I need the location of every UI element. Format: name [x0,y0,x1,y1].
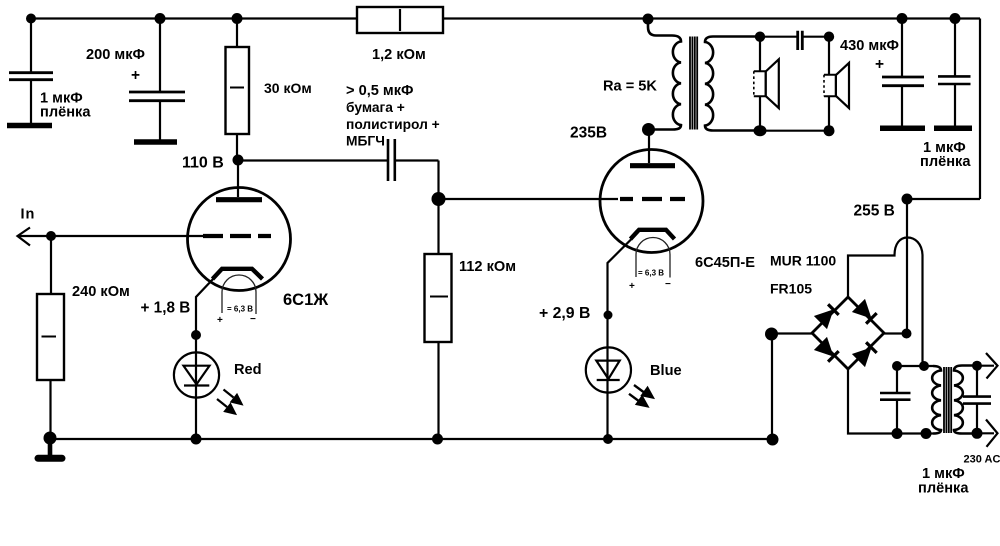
diode D5 (left to bottom) [816,339,839,362]
svg-text:полистирол +: полистирол + [346,117,440,132]
capacitor coupling 0,5 мкФ plates [388,139,395,181]
transformer T2 core [944,367,951,433]
tube V2 heater arc [636,238,670,278]
resistor 1,2 кОм [357,7,443,33]
node top rail at T1 [643,14,654,25]
wire bridge minus to ground rail [772,334,812,440]
svg-text:= 6,3 В: = 6,3 В [638,269,664,278]
svg-text:255 В: 255 В [854,202,895,219]
capacitor 200 мкФ: bottom bar [134,139,177,145]
capacitor mains filter right: lead [976,366,978,397]
svg-text:плёнка: плёнка [40,105,91,121]
node speaker top right [824,32,834,42]
node speaker top left [755,32,765,42]
LED D1 Red: lead and body [195,335,197,439]
speaker SP2 box [824,75,836,96]
LED D1 Red: light arrows [217,390,242,414]
wire input to tube V1 grid [18,235,204,237]
capacitor 430 мкФ: bottom bar [880,125,925,131]
transformer T2 secondary winding [932,366,941,434]
wire 255V node down to bridge [906,199,908,334]
capacitor 1 мкФ film top right: bottom bar [934,125,972,131]
resistor 30 кОм [226,19,250,161]
node T2 right top [972,361,982,371]
svg-text:200 мкФ: 200 мкФ [86,47,145,63]
svg-text:+: + [217,315,223,326]
node T2 winding bottom [921,428,932,439]
terminal 230AC top arrow [977,353,998,379]
transformer T2 primary winding [954,366,977,434]
svg-text:бумага +: бумага + [346,100,405,115]
wire bridge plus output [884,332,907,334]
wire bridge AC top with hop over 255V wire [848,238,923,367]
transformer T1 primary winding [648,19,681,130]
capacitor mains filter right: lower lead [976,404,978,434]
diode D3 (left to top) [816,304,839,327]
capacitor 430 мкФ: plates [882,77,924,86]
svg-text:Blue: Blue [650,363,682,379]
tube V1 plate lead [237,160,239,197]
node 110V [233,155,244,166]
capacitor 1 мкФ film bottom: plates [880,393,911,400]
diode D4 (top to right) [854,301,877,324]
svg-text:−: − [665,279,671,290]
capacitor 1 мкФ film left: plates [9,73,53,80]
tube V2 6С45П-Е envelope [600,150,703,253]
speaker SP1 horn [766,59,779,108]
svg-text:= 6,3 В: = 6,3 В [227,305,253,314]
node T2 cap left top [892,361,902,371]
svg-text:110 В: 110 В [182,154,224,171]
node bridge minus top [765,328,778,341]
svg-text:430 мкФ: 430 мкФ [840,38,899,54]
node bridge plus [902,329,912,339]
node T2 right bottom [972,428,983,439]
node LED red top [191,330,201,340]
wire transformer T2 secondary top [897,365,933,367]
capacitor 1 мкФ film bottom: lower lead [896,400,898,434]
capacitor 1 мкФ film bottom: lead [896,366,898,393]
LED D2 Blue: light arrows [629,385,653,406]
capacitor 1 мкФ film left: lower lead [30,80,32,123]
svg-text:112 кОм: 112 кОм [459,259,516,275]
svg-text:МБГЧ: МБГЧ [346,134,385,149]
terminal 230AC bottom arrow [977,420,998,447]
node V2 grid [432,192,446,206]
node In [46,231,56,241]
speaker SP1 leads [759,37,761,131]
svg-text:6С45П-Е: 6С45П-Е [695,255,755,271]
wire 110V node to coupling cap [238,159,388,161]
tube V2 grid dashes [620,197,685,201]
svg-text:+ 2,9 В: + 2,9 В [539,305,590,322]
tube V1 plate [216,197,262,202]
wire right edge down [979,19,981,200]
node +2,9V [604,311,613,320]
node LED red bottom rail [191,434,202,445]
wire In node down to 240k [50,236,52,294]
resistor 240 кОм [37,294,64,438]
svg-text:In: In [21,207,36,223]
svg-text:1,2 кОм: 1,2 кОм [372,47,426,63]
svg-text:MUR 1100: MUR 1100 [770,253,836,269]
capacitor 1 мкФ film left: bottom bar [7,123,52,129]
tube V1 6С1Ж envelope [188,188,291,291]
wire crossover cap to speaker2 [802,36,829,38]
svg-text:+: + [875,56,884,73]
node top rail at 1uF right [950,13,961,24]
tube V1 cathode lead [196,278,214,335]
node T2 cap left bottom [892,428,903,439]
node top rail at 430uF [897,13,908,24]
tube V2 plate [630,163,675,168]
svg-text:235В: 235В [570,125,607,142]
transformer T1 core [690,37,697,130]
wire speaker bottom net [760,130,829,132]
wire top rail left [31,17,357,19]
wire bottom ground rail [50,438,773,440]
wire to 255V node [907,198,980,200]
node 255V [902,194,913,205]
node 235V [642,123,655,136]
input arrow In [18,228,31,246]
svg-text:Ra = 5K: Ra = 5K [603,79,657,95]
node ground left [44,432,57,445]
svg-text:30 кОм: 30 кОм [264,80,312,96]
node T2 winding top [919,361,929,371]
svg-text:FR105: FR105 [770,281,812,297]
wire speaker top net [760,36,797,38]
tube V2 plate lead [648,130,650,164]
node top rail at 200uF cap [155,13,166,24]
speaker SP2 horn [836,63,849,108]
wire coupling cap to grid node [395,161,439,195]
node speaker bottom left [754,125,767,136]
LED D1 Red: diode triangle [184,366,210,386]
capacitor 430 мкФ: lower lead [901,86,903,126]
tube V1 grid dashes [203,234,271,238]
capacitor 1 мкФ film top right: lead [954,19,956,77]
capacitor 1 мкФ film left: lead [30,19,32,73]
svg-text:+: + [131,67,140,84]
svg-text:240 кОм: 240 кОм [72,284,130,300]
svg-text:> 0,5 мкФ: > 0,5 мкФ [346,83,413,99]
svg-text:+: + [629,281,635,292]
capacitor crossover plates [798,31,803,50]
transformer T1 secondary winding [705,37,760,131]
wire top rail right [443,17,980,19]
capacitor 200 мкФ: lower lead [159,101,161,140]
svg-text:−: − [250,314,256,325]
capacitor 1 мкФ film top right: plates [938,76,971,84]
svg-text:230 AC: 230 AC [964,454,1000,466]
node top rail at 1uF cap [26,14,36,24]
wire grid node to tube V2 grid [439,198,619,200]
capacitor 430 мкФ: lead [901,19,903,77]
tube V1 cathode [213,269,263,279]
capacitor mains filter right: plates [963,397,991,404]
svg-text:Red: Red [234,362,262,378]
tube V2 cathode [631,230,675,239]
tube V1 heater arc [222,275,256,314]
resistor 112 кОм [425,199,452,439]
LED D2 Blue: diode triangle [596,361,619,380]
svg-text:+ 1,8 В: + 1,8 В [141,300,191,317]
ground symbol [38,438,62,458]
node top rail at 30k [232,13,243,24]
node 112k bottom rail [432,434,443,445]
capacitor 200 мкФ: lead [159,19,161,92]
node speaker bottom right [824,125,835,136]
tube V2 cathode lead [608,239,633,440]
svg-text:плёнка: плёнка [920,154,971,170]
capacitor 1 мкФ film top right: lower lead [954,85,956,127]
diode D6 (bottom to right) [854,342,877,365]
diode bridge diamond [812,297,884,369]
svg-text:плёнка: плёнка [918,481,969,497]
svg-text:6С1Ж: 6С1Ж [283,291,328,309]
capacitor 200 мкФ: plates [129,92,185,101]
LED D2 Blue: body [586,347,631,392]
node ground rail right end [767,434,779,446]
node LED blue bottom rail [603,434,613,444]
speaker SP1 box [754,71,766,96]
speaker SP2 leads [828,37,830,131]
wire bridge AC bottom to transformer [848,369,933,434]
